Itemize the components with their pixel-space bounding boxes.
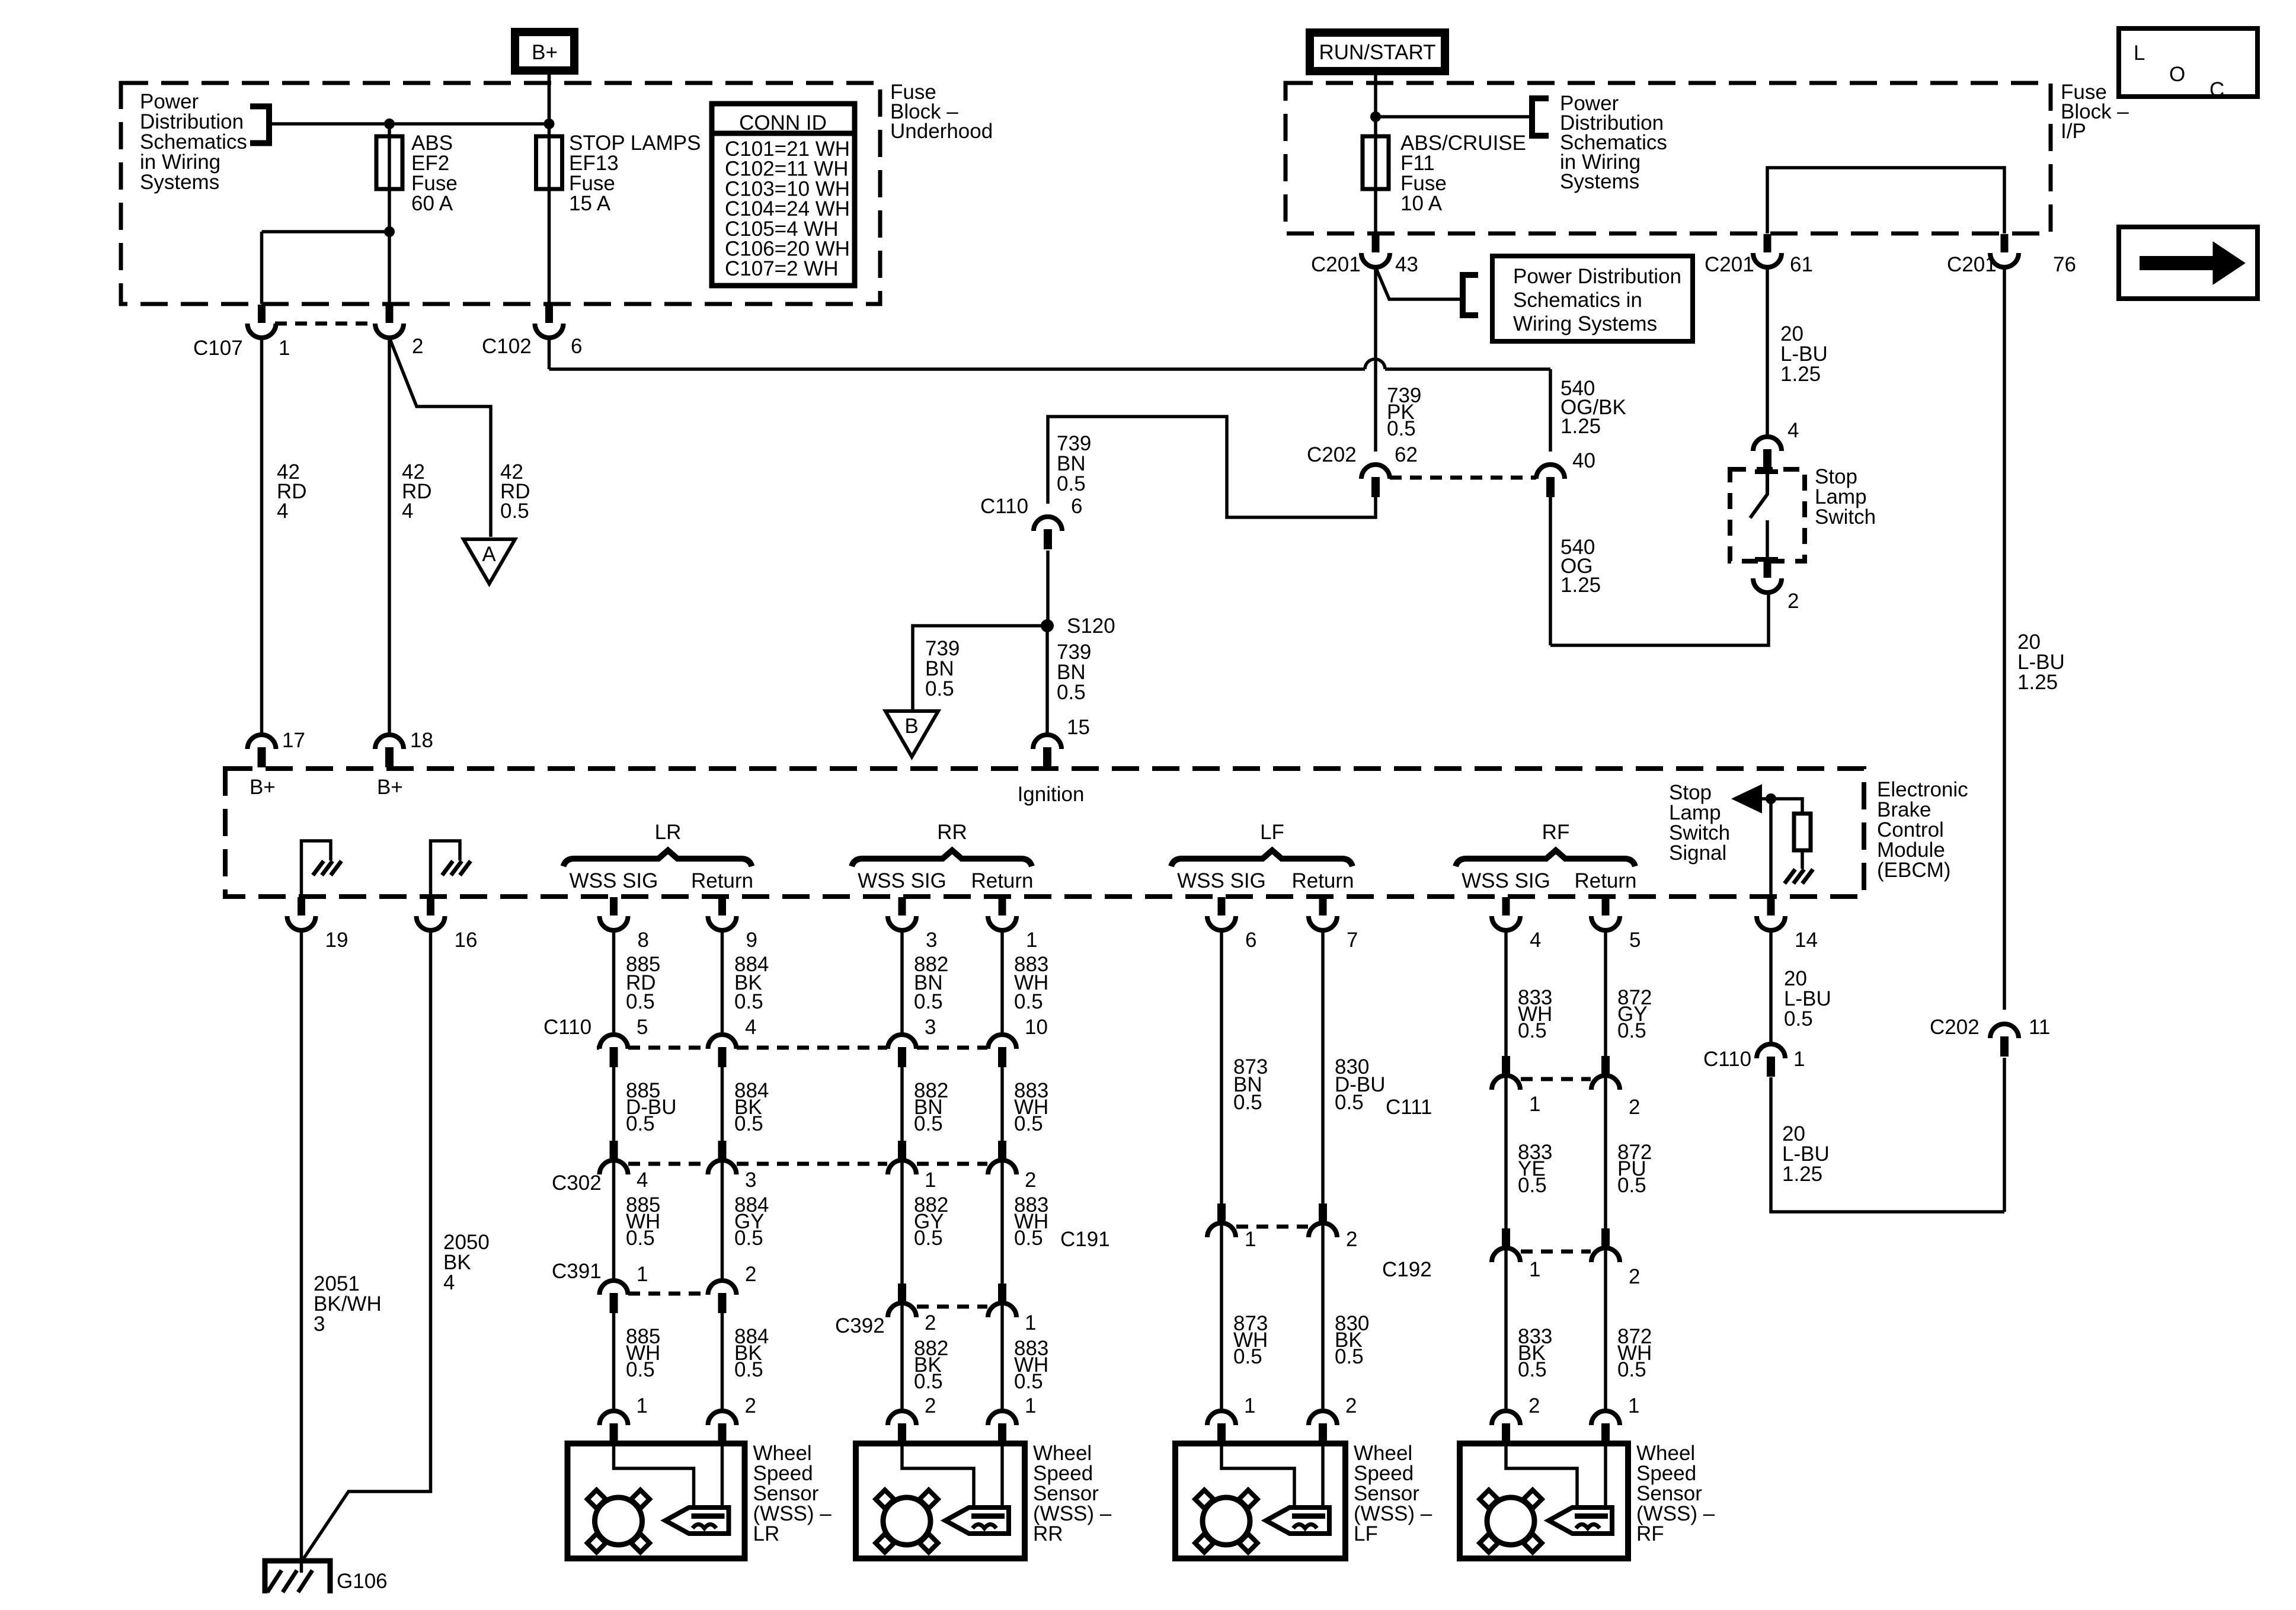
svg-text:1: 1 — [1026, 929, 1037, 952]
svg-text:C110: C110 — [543, 1016, 591, 1039]
svg-text:0.5: 0.5 — [1014, 1227, 1043, 1250]
svg-text:WSS SIG: WSS SIG — [570, 869, 658, 892]
svg-text:0.5: 0.5 — [626, 1227, 655, 1250]
svg-text:0.5: 0.5 — [1518, 1019, 1547, 1042]
svg-text:1: 1 — [1025, 1311, 1036, 1334]
svg-text:1: 1 — [1529, 1093, 1540, 1116]
svg-text:0.5: 0.5 — [1014, 990, 1043, 1013]
svg-text:Return: Return — [1291, 869, 1354, 892]
svg-text:15 A: 15 A — [569, 192, 611, 215]
svg-text:C391: C391 — [552, 1260, 602, 1283]
svg-text:0.5: 0.5 — [1617, 1174, 1646, 1197]
svg-text:5: 5 — [1629, 929, 1641, 952]
svg-text:C: C — [2209, 78, 2224, 101]
svg-text:0.5: 0.5 — [1014, 1370, 1043, 1393]
svg-text:C192: C192 — [1382, 1258, 1432, 1281]
svg-text:3: 3 — [926, 929, 937, 952]
svg-text:C107: C107 — [193, 337, 243, 360]
svg-text:0.5: 0.5 — [914, 1370, 943, 1393]
svg-text:Power Distribution: Power Distribution — [1513, 265, 1681, 288]
svg-text:0.5: 0.5 — [626, 990, 655, 1013]
svg-text:C202: C202 — [1307, 443, 1357, 466]
svg-text:2: 2 — [925, 1311, 936, 1334]
svg-text:10: 10 — [1025, 1016, 1048, 1039]
svg-text:O: O — [2169, 63, 2185, 86]
svg-text:WSS SIG: WSS SIG — [858, 869, 946, 892]
svg-text:LR: LR — [655, 821, 682, 844]
svg-text:Return: Return — [971, 869, 1033, 892]
svg-text:L: L — [2134, 41, 2145, 65]
svg-text:0.5: 0.5 — [925, 677, 954, 700]
svg-text:LF: LF — [1260, 821, 1284, 844]
svg-text:0.5: 0.5 — [1335, 1345, 1364, 1368]
svg-text:Signal: Signal — [1669, 841, 1726, 865]
svg-text:0.5: 0.5 — [1014, 1112, 1043, 1135]
svg-text:4: 4 — [443, 1271, 455, 1294]
svg-text:0.5: 0.5 — [1617, 1358, 1646, 1381]
svg-text:2: 2 — [925, 1394, 936, 1417]
svg-text:1.25: 1.25 — [1560, 415, 1601, 438]
svg-text:RR: RR — [1033, 1522, 1063, 1545]
svg-text:B+: B+ — [532, 41, 558, 64]
svg-text:Return: Return — [1574, 869, 1636, 892]
svg-text:C110: C110 — [980, 495, 1028, 518]
svg-text:60 A: 60 A — [411, 192, 453, 215]
svg-text:15: 15 — [1067, 716, 1090, 739]
svg-text:0.5: 0.5 — [914, 990, 943, 1013]
svg-text:17: 17 — [282, 729, 305, 752]
svg-text:0.5: 0.5 — [1617, 1019, 1646, 1042]
svg-text:61: 61 — [1790, 253, 1813, 276]
svg-text:6: 6 — [1071, 495, 1082, 518]
svg-text:C201: C201 — [1947, 253, 1997, 276]
svg-text:1.25: 1.25 — [1560, 574, 1601, 597]
svg-text:5: 5 — [637, 1016, 648, 1039]
svg-text:B: B — [904, 715, 918, 738]
svg-text:2: 2 — [1787, 590, 1799, 613]
svg-text:B+: B+ — [250, 776, 276, 799]
svg-text:0.5: 0.5 — [734, 1227, 763, 1250]
svg-text:1: 1 — [1793, 1048, 1805, 1071]
svg-text:(EBCM): (EBCM) — [1877, 859, 1950, 882]
svg-text:2: 2 — [1346, 1228, 1357, 1251]
svg-text:RF: RF — [1636, 1522, 1664, 1545]
svg-text:9: 9 — [746, 929, 757, 952]
svg-text:1.25: 1.25 — [1782, 1163, 1822, 1186]
svg-text:C201: C201 — [1705, 253, 1754, 276]
svg-text:7: 7 — [1347, 929, 1358, 952]
svg-text:1.25: 1.25 — [2017, 671, 2058, 694]
svg-text:4: 4 — [277, 500, 288, 523]
svg-text:16: 16 — [455, 929, 478, 952]
svg-text:C102: C102 — [482, 335, 532, 358]
svg-text:40: 40 — [1572, 449, 1595, 472]
svg-text:1: 1 — [1245, 1228, 1256, 1251]
svg-text:2: 2 — [745, 1394, 756, 1417]
svg-text:6: 6 — [571, 335, 582, 358]
svg-text:LR: LR — [753, 1522, 780, 1545]
svg-text:18: 18 — [410, 729, 433, 752]
svg-text:2: 2 — [1629, 1096, 1640, 1119]
svg-text:0.5: 0.5 — [1387, 417, 1416, 440]
svg-text:RUN/START: RUN/START — [1319, 41, 1435, 64]
svg-text:C302: C302 — [552, 1172, 602, 1195]
svg-text:19: 19 — [325, 929, 348, 952]
svg-text:1: 1 — [1025, 1394, 1036, 1417]
svg-text:0.5: 0.5 — [1518, 1174, 1547, 1197]
svg-text:3: 3 — [925, 1016, 936, 1039]
svg-text:Wiring Systems: Wiring Systems — [1513, 312, 1657, 335]
svg-text:0.5: 0.5 — [500, 500, 529, 523]
svg-text:4: 4 — [637, 1169, 648, 1192]
svg-text:43: 43 — [1395, 253, 1418, 276]
svg-text:C111: C111 — [1386, 1096, 1432, 1119]
svg-text:3: 3 — [314, 1313, 325, 1336]
svg-text:0.5: 0.5 — [1335, 1091, 1364, 1114]
svg-text:0.5: 0.5 — [1057, 681, 1086, 704]
svg-text:4: 4 — [402, 500, 413, 523]
svg-text:G106: G106 — [337, 1570, 388, 1593]
svg-text:0.5: 0.5 — [1233, 1091, 1262, 1114]
svg-text:WSS SIG: WSS SIG — [1177, 869, 1266, 892]
svg-text:2: 2 — [1528, 1394, 1540, 1417]
svg-text:1: 1 — [925, 1169, 936, 1192]
svg-text:0.5: 0.5 — [734, 1358, 763, 1381]
svg-text:2: 2 — [1629, 1265, 1640, 1288]
svg-text:0.5: 0.5 — [626, 1358, 655, 1381]
svg-text:C107=2 WH: C107=2 WH — [725, 257, 839, 280]
svg-text:8: 8 — [638, 929, 649, 952]
svg-text:S120: S120 — [1067, 614, 1115, 638]
svg-text:0.5: 0.5 — [734, 1112, 763, 1135]
svg-text:B+: B+ — [377, 776, 403, 799]
svg-text:6: 6 — [1245, 929, 1256, 952]
svg-text:1: 1 — [1628, 1394, 1639, 1417]
svg-text:0.5: 0.5 — [914, 1227, 943, 1250]
svg-text:0.5: 0.5 — [1518, 1358, 1547, 1381]
svg-text:RR: RR — [937, 821, 967, 844]
svg-text:0.5: 0.5 — [734, 990, 763, 1013]
svg-text:I/P: I/P — [2061, 120, 2086, 143]
svg-text:2: 2 — [1025, 1169, 1036, 1192]
svg-text:Systems: Systems — [1560, 170, 1639, 193]
svg-text:14: 14 — [1795, 929, 1818, 952]
svg-text:1: 1 — [279, 337, 290, 360]
svg-text:4: 4 — [1530, 929, 1541, 952]
svg-text:2: 2 — [1345, 1394, 1357, 1417]
svg-text:1: 1 — [637, 1394, 648, 1417]
svg-text:Schematics in: Schematics in — [1513, 289, 1642, 312]
svg-text:0.5: 0.5 — [1784, 1007, 1813, 1030]
svg-text:LF: LF — [1354, 1522, 1378, 1545]
svg-text:C191: C191 — [1060, 1228, 1110, 1251]
svg-text:C202: C202 — [1930, 1016, 1980, 1039]
svg-text:1: 1 — [637, 1263, 648, 1286]
svg-text:76: 76 — [2053, 253, 2076, 276]
svg-text:RF: RF — [1542, 821, 1570, 844]
svg-text:3: 3 — [745, 1169, 756, 1192]
svg-text:Underhood: Underhood — [890, 120, 993, 143]
svg-text:Ignition: Ignition — [1018, 783, 1085, 806]
svg-text:4: 4 — [1787, 419, 1799, 442]
svg-text:0.5: 0.5 — [914, 1112, 943, 1135]
svg-text:C392: C392 — [835, 1314, 885, 1337]
svg-text:0.5: 0.5 — [1233, 1345, 1262, 1368]
svg-text:1: 1 — [1529, 1258, 1540, 1281]
svg-text:62: 62 — [1395, 443, 1418, 466]
svg-text:1: 1 — [1244, 1394, 1255, 1417]
svg-text:0.5: 0.5 — [626, 1112, 655, 1135]
svg-text:Return: Return — [691, 869, 753, 892]
svg-text:2: 2 — [412, 335, 423, 358]
svg-text:C201: C201 — [1311, 253, 1361, 276]
svg-text:4: 4 — [745, 1016, 756, 1039]
svg-text:Systems: Systems — [140, 171, 219, 194]
svg-text:10 A: 10 A — [1400, 192, 1443, 215]
svg-text:Switch: Switch — [1815, 505, 1876, 529]
svg-text:C110: C110 — [1703, 1048, 1751, 1071]
svg-text:A: A — [482, 543, 496, 566]
svg-text:0.5: 0.5 — [1057, 472, 1086, 495]
svg-text:2: 2 — [745, 1263, 756, 1286]
svg-text:WSS SIG: WSS SIG — [1462, 869, 1550, 892]
svg-text:11: 11 — [2029, 1016, 2050, 1039]
svg-text:1.25: 1.25 — [1780, 363, 1821, 386]
